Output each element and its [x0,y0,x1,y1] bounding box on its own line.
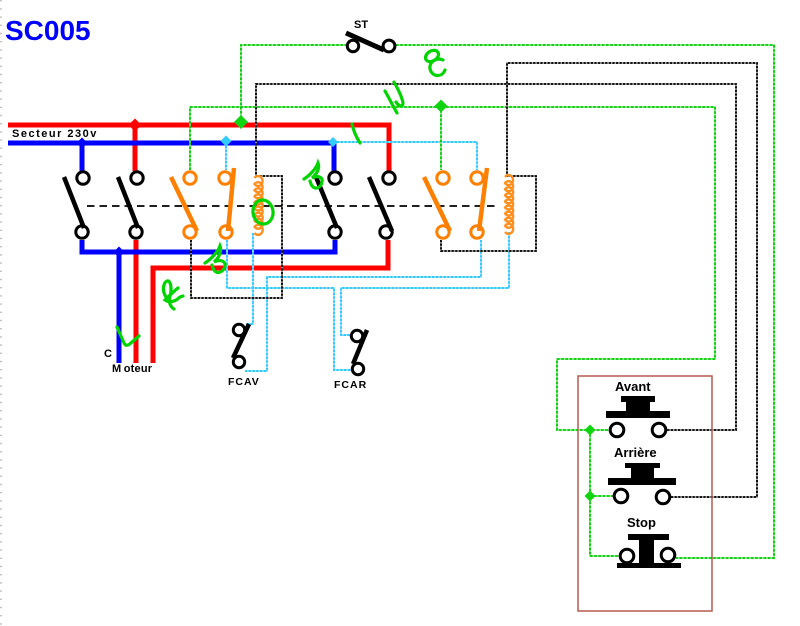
svg-text:FCAR: FCAR [334,379,367,391]
mark 1 [352,124,360,143]
svg-text:M oteur: M oteur [112,363,153,375]
contactor contact 4 (black) [369,172,395,238]
node blue junction motor [114,247,125,258]
node green dot on red bus [234,115,248,129]
node blue junction contact1 [77,138,88,149]
mark B upper [304,163,322,188]
contactor contact 2 (black) [118,172,143,238]
switch ST [346,33,395,52]
contactor contact 1 (black) [64,172,89,238]
node green junction arriere [585,491,596,502]
node red junction to contact K2 [129,119,142,132]
svg-text:Secteur 230v: Secteur 230v [12,128,98,140]
svg-text:SC005: SC005 [5,15,91,46]
wire blue lower bus [82,240,335,252]
button box [578,376,712,611]
mark 3 [423,48,440,64]
svg-text:Arrière: Arrière [614,445,657,460]
coil K2 (orange) [505,175,513,234]
node green junction relay2 [435,100,448,113]
svg-text:FCAV: FCAV [228,376,260,388]
mechanical link dashed line [87,205,499,207]
svg-text:Avant: Avant [615,379,651,394]
wire red drop to contact2 top [133,125,138,171]
wire blue neutral bus top [8,143,334,171]
handwritten green annotations [117,48,445,345]
wire blue drop to motor [117,252,122,363]
node green junction avant [585,425,596,436]
node cyan dot on blue bus end [328,137,338,147]
mark O [251,199,274,226]
mark L check at motor [117,327,139,345]
wire blue drop to contact1 top [80,143,85,171]
wire red lower bus to motor [153,240,388,363]
relay K2 NC contact (orange) [471,168,487,238]
left page dotted border [0,0,2,626]
wire red phase bus top [8,125,389,171]
svg-text:ST: ST [354,19,368,31]
wire red contact2 bottom to motor [134,240,139,363]
limit switch FCAV [233,324,249,368]
coil K1 (orange) [255,176,263,235]
relay K1 NC contact (orange) [219,168,234,238]
mark N [385,82,403,113]
limit switch FCAR [351,330,367,375]
svg-text:Stop: Stop [627,515,656,530]
relay K2 NO contact (orange) [424,172,450,238]
relay K1 NO contact (orange) [171,172,197,238]
contactor contact 3 (black) [316,172,341,238]
node cyan dot relay1 NC top [221,136,232,147]
mark A [163,281,183,309]
mark B lower [205,246,225,272]
svg-text:C: C [104,348,112,360]
